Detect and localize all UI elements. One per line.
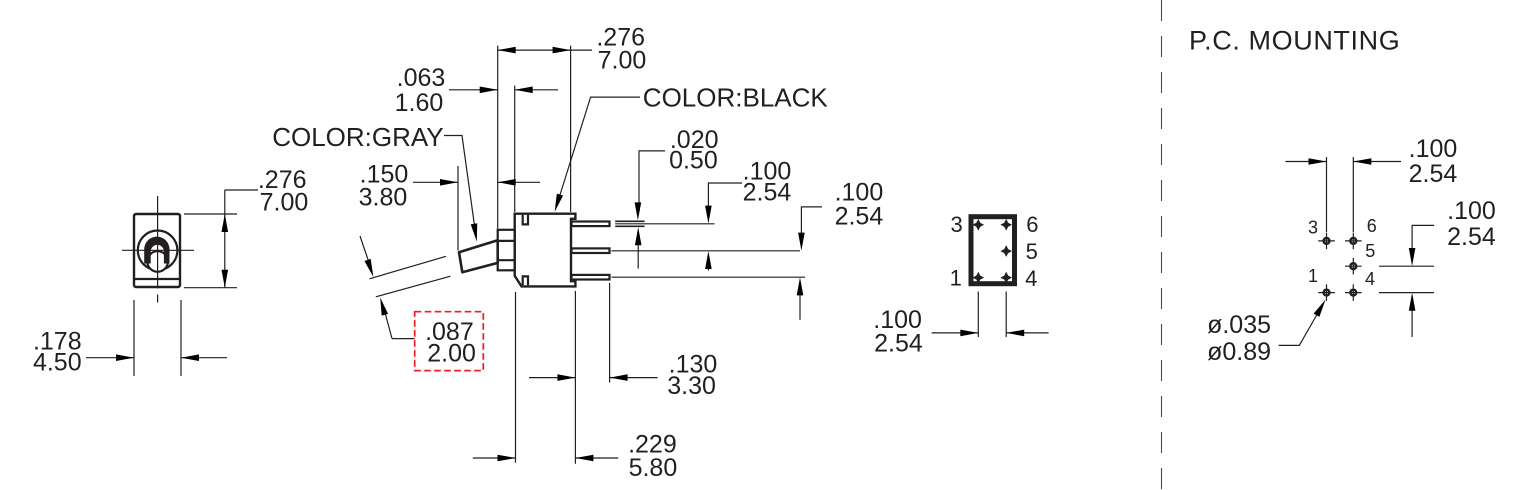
pin 1 centerline ext (615, 223, 714, 225)
dim .063/1.60 (449, 89, 498, 91)
pin 1 surface ext lines (.020) (615, 220, 644, 222)
svg-text:3: 3 (950, 212, 962, 237)
ext line row 4 (1379, 292, 1434, 294)
top keying slot (523, 215, 528, 225)
dim .178/4.50 width arrows (86, 357, 134, 359)
ext line body right bottom (574, 291, 576, 464)
svg-text:2.54: 2.54 (743, 179, 792, 207)
lever alternate position line lower (376, 276, 451, 297)
terminal pin 3 (572, 275, 610, 280)
ext line lever tip (457, 166, 459, 251)
svg-text:1: 1 (950, 266, 962, 291)
dim .100/2.54 vertical (1412, 225, 1434, 257)
leader hole diameter (1279, 308, 1321, 346)
svg-text:COLOR:GRAY: COLOR:GRAY (272, 122, 443, 152)
dim .276/7.00 height dimension line + arrows (224, 190, 226, 288)
svg-text:.100: .100 (1409, 135, 1458, 163)
pin 1 (star) (973, 272, 985, 284)
ext line hole3 up (1326, 157, 1328, 232)
ext line body left bottom (515, 292, 517, 463)
hole 4 (1345, 284, 1362, 301)
hole 3 (1318, 233, 1335, 250)
dim .276/7.00 top (498, 49, 592, 51)
pin 3 (star) (973, 219, 985, 231)
leader COLOR:BLACK (557, 97, 640, 203)
svg-text:ø.035: ø.035 (1207, 311, 1271, 339)
svg-text:COLOR:BLACK: COLOR:BLACK (643, 83, 829, 113)
SECTION: SIDE VIEW (272, 23, 883, 482)
bushing (498, 230, 515, 270)
leader to red box (392, 338, 415, 340)
travel arrow upper (360, 236, 371, 267)
svg-text:3.80: 3.80 (359, 183, 408, 211)
ext line body left (514, 86, 516, 213)
svg-text:4: 4 (1025, 266, 1037, 291)
SECTION: BOTTOM VIEW (873, 212, 1048, 358)
terminal pin 2 (572, 248, 610, 253)
hole 5 (1345, 258, 1362, 275)
ext line pin end bottom (609, 283, 611, 383)
svg-text:7.00: 7.00 (598, 46, 647, 74)
vertical centerline (157, 196, 159, 289)
svg-text:4.50: 4.50 (33, 348, 82, 376)
dim .100/2.54 horizontal (1286, 161, 1327, 163)
SECTION: PC MOUNTING (1162, 0, 1496, 490)
svg-text:2.54: 2.54 (1447, 223, 1496, 251)
bottom keying slot (523, 276, 528, 285)
dim .100/2.54 second (801, 207, 822, 242)
switch body outline (515, 214, 576, 287)
horizontal centerline (122, 249, 194, 251)
bushing thread line 2 (498, 259, 515, 261)
svg-text:4: 4 (1365, 269, 1375, 289)
terminal pin 1 (572, 222, 610, 227)
pin 5 (star) (1000, 245, 1012, 257)
ext line pin4 (1005, 292, 1007, 338)
svg-text:2.54: 2.54 (835, 202, 884, 230)
actuator opening circle (138, 231, 178, 271)
svg-text:5: 5 (1026, 239, 1038, 264)
hole 1 (1318, 284, 1335, 301)
ext line pin1 (977, 292, 979, 338)
svg-text:7.00: 7.00 (260, 189, 309, 217)
svg-text:3: 3 (1308, 218, 1318, 238)
dim .150/3.80 (413, 181, 458, 183)
hole 6 (1345, 233, 1362, 250)
dim .229/5.80 (473, 457, 516, 459)
svg-text:2.00: 2.00 (427, 339, 476, 367)
pin 6 (star) (1000, 219, 1012, 231)
base outline bottom view (971, 217, 1015, 284)
toggle lever front (horseshoe) (144, 237, 169, 264)
svg-text:.100: .100 (1447, 197, 1496, 225)
svg-text:1: 1 (1308, 266, 1318, 286)
svg-text:ø0.89: ø0.89 (1207, 338, 1271, 366)
pin 3 centerline ext (612, 276, 806, 278)
svg-text:5: 5 (1365, 241, 1375, 261)
dim .276/7.00 height extension lines (184, 213, 237, 215)
svg-text:2.54: 2.54 (874, 329, 923, 357)
svg-text:1.60: 1.60 (395, 89, 444, 117)
pin 2 centerline ext (612, 250, 801, 252)
svg-text:P.C. MOUNTING: P.C. MOUNTING (1189, 26, 1400, 56)
section divider dashed line (1161, 0, 1163, 490)
dim .020/0.50 (639, 151, 665, 211)
ext line bushing face (497, 46, 499, 229)
svg-text:2.54: 2.54 (1409, 160, 1458, 188)
pin 4 (star) (1000, 272, 1012, 284)
svg-text:.063: .063 (397, 64, 446, 92)
red highlight box (415, 312, 484, 371)
dim .130/3.30 (529, 377, 575, 379)
toggle lever (459, 240, 498, 272)
travel arrow lower (383, 305, 392, 339)
svg-text:6: 6 (1367, 216, 1377, 236)
SECTION: FRONT VIEW (33, 166, 308, 376)
leader COLOR:GRAY (444, 136, 476, 234)
svg-text:6: 6 (1026, 212, 1038, 237)
bushing thread line 1 (498, 240, 515, 242)
ext line hole6 up (1352, 157, 1354, 232)
ext line row 5 (1379, 265, 1434, 267)
svg-text:3.30: 3.30 (667, 372, 716, 400)
svg-text:5.80: 5.80 (629, 454, 678, 482)
switch housing front view (134, 214, 180, 287)
dim .178/4.50 width extension lines (133, 300, 135, 376)
dim .100/2.54 first (708, 183, 742, 215)
lever alternate position line upper (370, 256, 447, 279)
toggle tip circle (147, 251, 168, 272)
housing base line (135, 278, 179, 280)
dim .100/2.54 pin spacing (932, 332, 979, 334)
svg-text:0.50: 0.50 (669, 146, 718, 174)
ext line body right (570, 46, 572, 212)
